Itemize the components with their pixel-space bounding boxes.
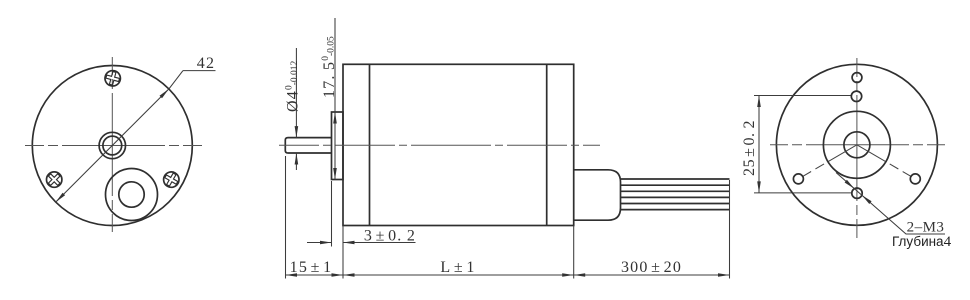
right view horizontal centerline xyxy=(770,144,945,146)
hole left xyxy=(793,174,803,184)
extension line upper M3 xyxy=(754,95,851,97)
arrow 17.5 bottom xyxy=(333,168,337,180)
dimension 42 diagonal line xyxy=(56,89,169,202)
right view: rear face outer circle xyxy=(776,64,937,225)
svg-text:Глубина4: Глубина4 xyxy=(892,234,952,250)
hole top xyxy=(852,73,862,83)
arrow 17.5 top xyxy=(333,112,337,124)
label 17.5 tolerance (rotated) xyxy=(321,36,338,98)
screw top xyxy=(103,69,122,88)
front end-cap line xyxy=(369,64,371,225)
dimension 300±20 xyxy=(574,274,730,276)
extension line lower M3 xyxy=(754,192,852,194)
left view horizontal centerline xyxy=(25,145,202,147)
arrow Ø4 bottom xyxy=(295,153,299,165)
svg-text:300 ± 20: 300 ± 20 xyxy=(621,259,682,276)
label Ø4 tolerance (rotated) xyxy=(285,60,302,112)
right view vertical centerline xyxy=(856,58,858,238)
left view vertical centerline xyxy=(111,57,113,232)
screw lower-left xyxy=(43,169,65,191)
dimension L±1 xyxy=(343,274,574,276)
left view center shaft boss circles xyxy=(99,132,125,158)
dashed radial to left hole xyxy=(798,145,857,179)
hole right xyxy=(910,174,920,184)
hole M3 upper xyxy=(851,91,861,101)
wire grommet xyxy=(574,170,621,220)
extension line body right lower xyxy=(573,226,575,279)
middle view: motor body outline xyxy=(343,64,574,225)
dimension 25±0.2 xyxy=(758,96,760,193)
svg-text:15 ± 1: 15 ± 1 xyxy=(290,259,333,276)
arrow 42 lower-left xyxy=(56,193,65,202)
svg-text:L ± 1: L ± 1 xyxy=(440,259,475,276)
label 25±0.2 (rotated) xyxy=(741,120,758,176)
svg-text:3 ± 0. 2: 3 ± 0. 2 xyxy=(364,228,416,245)
leader 2-M3 xyxy=(836,173,945,235)
svg-text:25 ± 0. 2: 25 ± 0. 2 xyxy=(741,120,758,176)
arrow Ø4 top xyxy=(295,126,299,138)
dimension 3±0.2 xyxy=(307,242,332,244)
screw lower-right xyxy=(161,169,182,190)
extension line flange left lower xyxy=(342,226,344,279)
left view: front face outer circle xyxy=(32,66,192,226)
rear end-cap line xyxy=(546,64,548,225)
dashed radial to right hole xyxy=(857,145,915,179)
bottom boss circles xyxy=(106,169,158,221)
svg-text:Ø40-0.012: Ø40-0.012 xyxy=(285,60,302,112)
extension line boss left xyxy=(331,181,333,247)
lead wires xyxy=(621,178,730,180)
svg-text:42: 42 xyxy=(197,55,215,72)
extension line wire end xyxy=(729,180,731,279)
middle view horizontal centerline xyxy=(279,144,600,146)
svg-text:17. 50-0.05: 17. 50-0.05 xyxy=(321,36,338,98)
arrow 42 upper-right xyxy=(160,89,169,98)
extension line shaft end xyxy=(285,156,287,279)
hole M3 lower xyxy=(852,188,862,198)
center hole xyxy=(844,132,870,158)
dimension 15±1 xyxy=(286,274,344,276)
dimension Ø4 line xyxy=(295,48,297,138)
middle view: front boss xyxy=(332,112,344,180)
dimension 17.5 line xyxy=(334,18,336,180)
hub circle xyxy=(823,111,890,178)
middle view: shaft xyxy=(285,138,331,153)
